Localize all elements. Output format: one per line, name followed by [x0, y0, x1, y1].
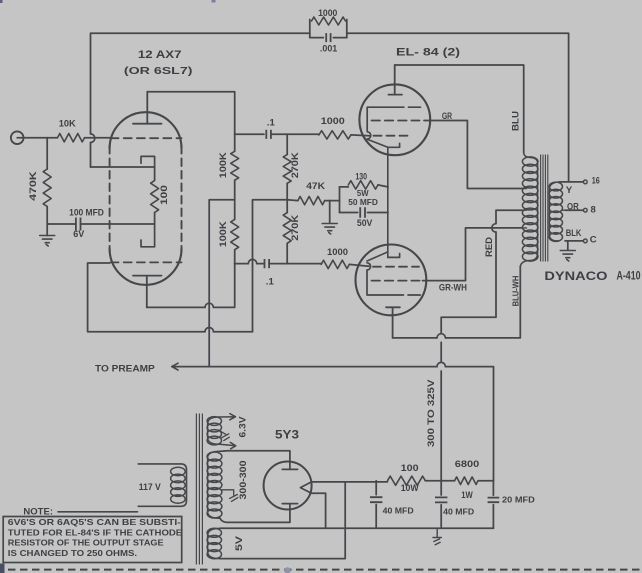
terminal 16	[583, 180, 587, 184]
svg-text:5V: 5V	[234, 536, 244, 551]
svg-text:1000: 1000	[327, 247, 348, 258]
wire hop plate2 line over B+ vertical	[205, 303, 213, 307]
plate EL84-2	[386, 307, 400, 338]
hop suppressor over grid wire EL84-2	[367, 263, 371, 270]
wire B+ output	[312, 481, 388, 483]
ground input	[46, 224, 48, 236]
wire screen exit to GR-WH	[423, 228, 523, 281]
svg-text:1W: 1W	[461, 490, 473, 500]
wire common line	[220, 527, 493, 529]
svg-text:TUTED FOR EL-84'S IF THE CATHO: TUTED FOR EL-84'S IF THE CATHODE	[8, 528, 183, 537]
artifact bottom dashed border	[8, 569, 641, 571]
wire plate 2 to load	[147, 264, 235, 308]
wire lower coupling line	[235, 263, 264, 265]
plate EL84-1	[388, 65, 402, 95]
wire feedback from 12AX7 cathode up to network	[91, 33, 310, 167]
core PT	[196, 414, 202, 565]
wire plate 1 EL84 to transformer	[395, 65, 524, 153]
resistor 270K upper	[286, 134, 288, 154]
svg-text:BLK: BLK	[566, 228, 582, 238]
wire hop preamp line over B+ vertical	[437, 362, 445, 366]
svg-text:BLU: BLU	[511, 111, 521, 131]
svg-text:BLU-WH: BLU-WH	[510, 276, 520, 307]
wire 6.3V lead top arrow	[220, 414, 236, 420]
capacitor 40MFD second	[440, 480, 442, 528]
svg-text:5Y3: 5Y3	[275, 427, 299, 441]
resistor 10K	[58, 134, 85, 142]
wire splitter junction to grid 2 return	[253, 200, 288, 332]
plate 1 12AX7	[133, 92, 162, 124]
cathode EL84-2	[388, 254, 400, 258]
svg-text:100K: 100K	[218, 152, 229, 178]
cathode 2 12AX7	[141, 224, 155, 247]
svg-text:47K: 47K	[306, 181, 325, 192]
suppressor EL84-1 rail	[367, 107, 420, 131]
wire 100MFD to cathode 2	[81, 223, 155, 225]
grid EL84-2 dashed	[373, 266, 419, 268]
wire ground bus to 100MFD	[47, 223, 76, 225]
resistor 100 10W	[388, 476, 426, 485]
svg-text:100: 100	[401, 463, 419, 474]
svg-text:8: 8	[591, 205, 596, 216]
hop suppressor over grid wire EL84-1	[367, 132, 371, 139]
svg-text:470K: 470K	[28, 171, 39, 201]
winding PT 117V primary	[138, 464, 186, 506]
terminal C	[583, 239, 587, 243]
plate 2 12AX7	[133, 276, 162, 308]
svg-text:.1: .1	[266, 277, 275, 288]
resistor 470K vertical	[46, 138, 48, 169]
wire TO PREAMP line	[172, 367, 494, 481]
core OPT	[541, 155, 548, 262]
wire plate 2 EL84 to transformer	[393, 266, 521, 338]
svg-text:270K: 270K	[290, 215, 301, 241]
svg-text:DYNACO: DYNACO	[544, 269, 607, 283]
svg-text:C: C	[590, 235, 597, 246]
wire grid 2 return	[88, 263, 253, 332]
winding PT 300-300	[208, 451, 221, 518]
filament 5Y3	[300, 482, 311, 493]
svg-text:5W: 5W	[357, 188, 369, 198]
wire C tap	[565, 240, 583, 242]
svg-text:300 TO 325V: 300 TO 325V	[426, 380, 436, 448]
ground splitter	[322, 224, 337, 235]
suppressor EL84-2 rail	[367, 271, 420, 296]
capacitor 20MFD	[492, 480, 494, 528]
resistor 100K lower plate load	[234, 200, 236, 220]
wire plate 1 to load	[147, 92, 234, 135]
resistor 1000 feedback	[312, 17, 346, 25]
tube 12AX7 envelope top arc	[110, 112, 182, 148]
svg-text:6.3V: 6.3V	[237, 417, 247, 438]
svg-text:OR: OR	[567, 201, 579, 211]
wire B+ feed to 100K junction	[209, 200, 235, 367]
artifact top left dot	[0, 0, 3, 3]
svg-text:GR: GR	[442, 111, 452, 122]
ground 6.3V CT	[219, 430, 230, 441]
resistor 100K upper plate load	[234, 134, 236, 151]
svg-text:10W: 10W	[401, 483, 419, 494]
screen EL84-2 dashed	[372, 280, 420, 282]
terminal 8	[583, 208, 587, 212]
wire 5Y3 filament bottom to 5V top	[311, 493, 325, 528]
resistor 100 cathode	[154, 167, 156, 181]
tube 12AX7 envelope dashed sides	[110, 146, 182, 251]
wire input to grid	[17, 137, 57, 139]
svg-text:.1: .1	[267, 118, 276, 129]
svg-text:130: 130	[355, 172, 367, 182]
suppressor to cathode tie EL84-1	[367, 139, 388, 147]
wire cap 1 to grid stopper	[271, 133, 319, 135]
wire 47K junction to ground	[329, 201, 331, 223]
artifact bottom left mark	[0, 564, 5, 573]
capacitor 50MFD	[340, 212, 389, 214]
resistor 270K lower	[286, 200, 288, 213]
svg-text:10K: 10K	[59, 119, 76, 130]
wire hop feedback vertical over grid wire	[91, 134, 95, 143]
capacitor 40MFD first	[375, 481, 377, 529]
screen EL84-1 dashed	[372, 120, 420, 122]
tube 12AX7 envelope bottom arc	[110, 249, 182, 285]
artifact bottom center dot	[284, 567, 290, 573]
svg-text:6800: 6800	[455, 459, 480, 470]
svg-text:TO PREAMP: TO PREAMP	[95, 363, 155, 374]
wire hop grid2 return over B+ vertical	[205, 328, 213, 332]
svg-text:50 MFD: 50 MFD	[348, 198, 378, 207]
svg-text:A-410: A-410	[617, 271, 641, 283]
svg-text:6V: 6V	[73, 229, 84, 239]
node left bar of R-C feedback network	[309, 20, 311, 38]
plate bottom 5Y3	[282, 504, 297, 510]
hop RED over GR-WH	[492, 224, 496, 232]
winding PT 6.3V	[208, 417, 220, 444]
winding PT 5V	[208, 528, 220, 558]
wire screen exit to GR	[424, 121, 523, 189]
wire 10K to 12AX7 grid 1	[85, 137, 110, 139]
svg-text:12 AX7: 12 AX7	[138, 49, 182, 61]
wire HV bottom to 5Y3 plate	[220, 509, 290, 522]
svg-text:.001: .001	[320, 44, 338, 55]
svg-text:1000: 1000	[321, 116, 345, 127]
wire 16 ohm tap	[560, 181, 584, 183]
capacitor .1 upper coupling	[266, 130, 271, 139]
svg-text:50V: 50V	[357, 218, 373, 228]
grid EL84-1 dashed	[374, 135, 413, 137]
svg-text:100K: 100K	[218, 221, 229, 247]
svg-text:100 MFD: 100 MFD	[69, 207, 104, 217]
resistor 47K	[287, 199, 298, 202]
svg-text:40 MFD: 40 MFD	[443, 506, 474, 516]
winding OPT secondary	[549, 182, 560, 241]
ground OPT secondary	[567, 241, 569, 250]
svg-text:(OR 6SL7): (OR 6SL7)	[124, 65, 193, 77]
resistor 1000 grid stopper upper	[319, 131, 351, 139]
wire HV top to 5Y3 plate	[221, 451, 290, 462]
tube EL84-1 envelope	[359, 84, 430, 155]
capacitor .001 feedback	[310, 37, 347, 39]
node left bar 130 network	[339, 187, 341, 213]
resistor 6800 1W	[455, 477, 478, 485]
svg-text:RED: RED	[484, 236, 494, 257]
node right bar of R-C feedback network	[346, 20, 348, 38]
ground filter	[433, 528, 441, 545]
wire RED B+ from CT	[441, 210, 522, 480]
wire junction to coupling cap 1	[235, 133, 264, 135]
input jack	[11, 131, 24, 144]
svg-text:1000: 1000	[318, 8, 337, 18]
svg-text:117 V: 117 V	[139, 482, 161, 492]
plate top 5Y3	[282, 462, 297, 470]
wire hop coupling over splitter vertical	[248, 259, 256, 263]
tube EL84-2 envelope	[356, 245, 427, 316]
grid 2 12AX7 dashed	[111, 261, 182, 263]
svg-text:Y: Y	[566, 185, 573, 196]
wire hop plate2 over B+ vertical	[437, 334, 445, 338]
capacitor .1 lower coupling	[265, 259, 270, 268]
wire cap 2 to grid stopper 2	[269, 263, 321, 265]
tube 5Y3 envelope	[264, 462, 312, 510]
wire 47K junction to 130 network	[330, 200, 340, 202]
wire feedback to cathode 1	[91, 166, 155, 168]
resistor 1000 grid stopper lower	[321, 260, 349, 268]
svg-text:100: 100	[159, 185, 169, 205]
wire 5V bottom to B+	[220, 482, 345, 559]
svg-text:IS CHANGED TO 250 OHMS.: IS CHANGED TO 250 OHMS.	[8, 549, 137, 558]
svg-text:EL- 84 (2): EL- 84 (2)	[396, 47, 460, 59]
suppressor to cathode tie EL84-2	[367, 252, 388, 261]
svg-text:GR-WH: GR-WH	[439, 283, 467, 293]
grid 1 12AX7 dashed	[111, 137, 182, 139]
wire 8 ohm tap	[565, 209, 583, 211]
note box	[3, 517, 182, 563]
winding OPT primary	[521, 153, 538, 267]
cathode EL84-1	[388, 143, 400, 147]
svg-text:300-300: 300-300	[238, 461, 248, 500]
arrow TO PREAMP	[172, 363, 178, 370]
svg-text:RESISTOR OF THE OUTPUT STAGE: RESISTOR OF THE OUTPUT STAGE	[8, 539, 164, 548]
wire EL84 cathode bus	[387, 147, 389, 257]
wire feedback network to 16-ohm tap	[347, 33, 569, 182]
rule after NOTE	[58, 511, 138, 513]
resistor 130 5W	[340, 186, 349, 188]
svg-text:40 MFD: 40 MFD	[383, 505, 414, 515]
ground HV CT	[222, 490, 238, 502]
cathode 1 12AX7	[141, 156, 155, 167]
svg-text:6V6'S OR 6AQ5'S CAN BE SUBSTI-: 6V6'S OR 6AQ5'S CAN BE SUBSTI-	[8, 518, 181, 527]
svg-text:270K: 270K	[290, 152, 301, 178]
capacitor 100MFD cathode bypass	[76, 218, 81, 231]
svg-text:20 MFD: 20 MFD	[502, 495, 535, 505]
artifact top dot	[212, 0, 216, 3]
wire 6.3V lead bottom arrow	[220, 442, 236, 448]
svg-text:16: 16	[592, 176, 600, 187]
